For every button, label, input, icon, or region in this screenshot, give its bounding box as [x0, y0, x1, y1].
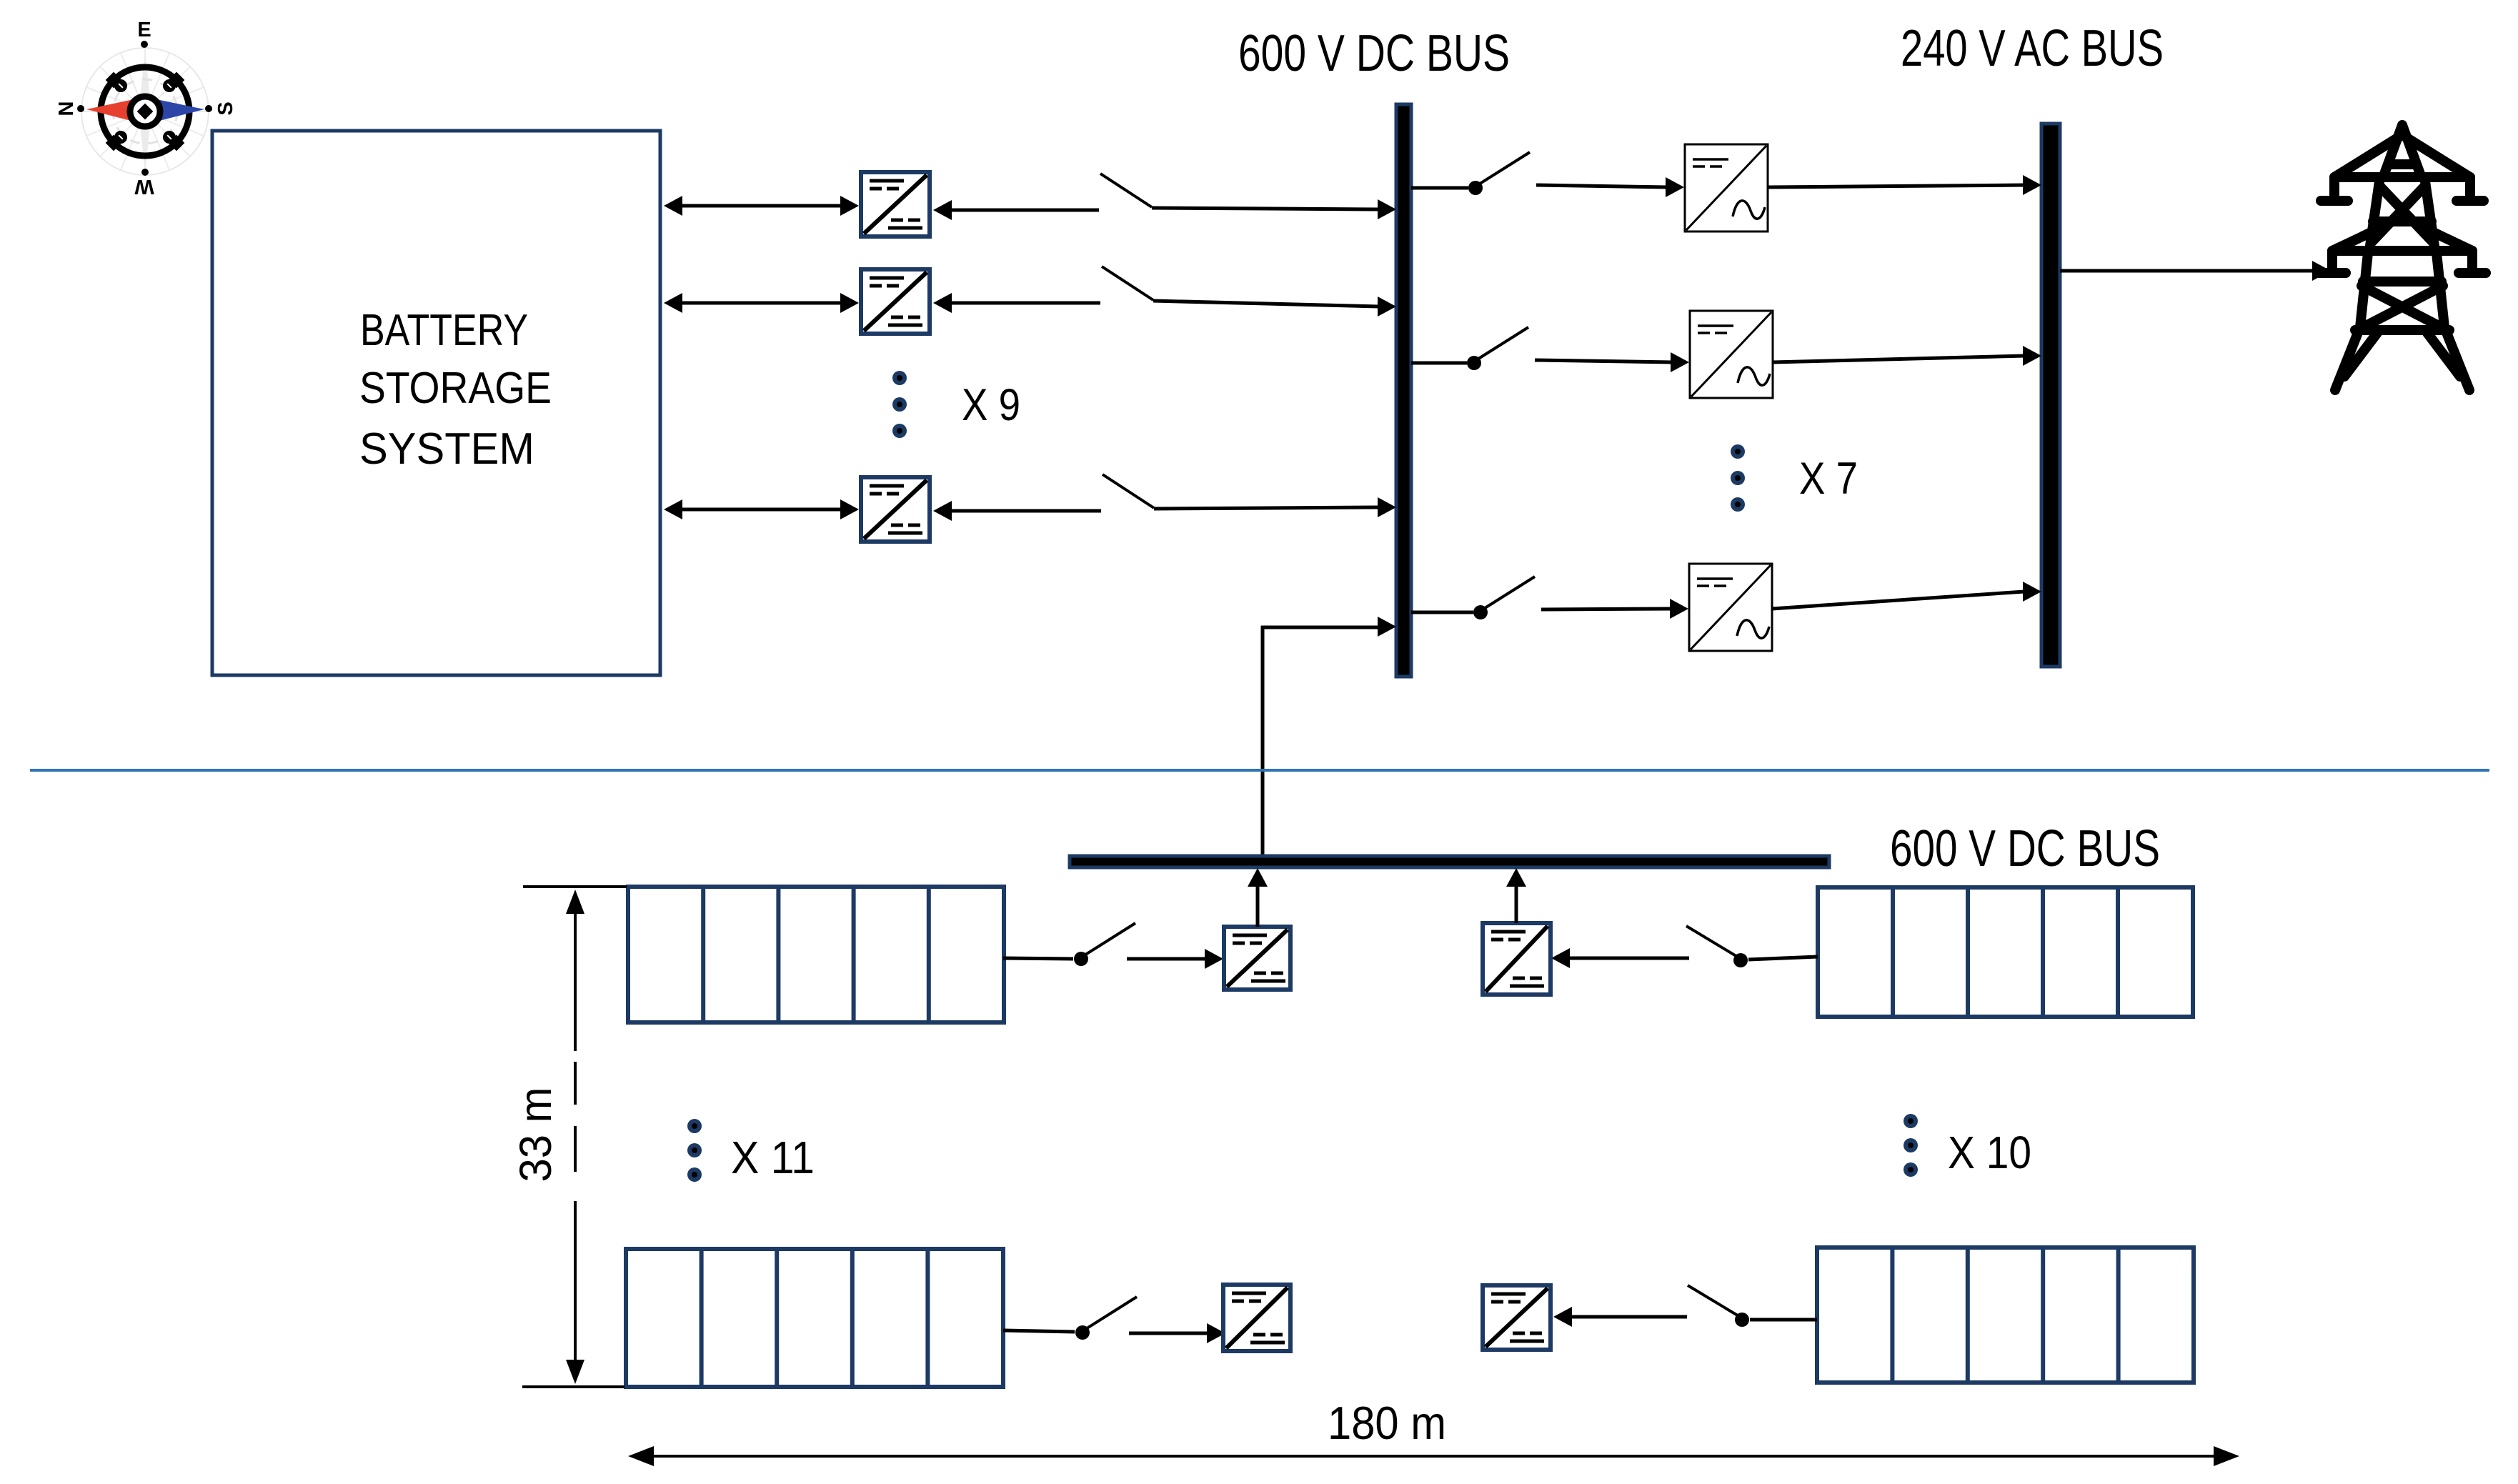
wire from PV DC bus to top DC bus (L-shaped)	[1261, 617, 1396, 856]
DC/DC converter B1	[861, 172, 930, 236]
DC/DC converter PV NE	[1483, 923, 1551, 995]
svg-text:X 11: X 11	[731, 1132, 815, 1183]
wire switch to DC bus row 3	[1154, 497, 1396, 517]
ellipsis dots (inverter strings)	[1731, 444, 1745, 512]
wire battery to DC/DC converter row 2 (bidirectional)	[664, 293, 859, 313]
disconnect switch battery row 1	[1100, 174, 1152, 207]
disconnect switch battery row 2	[1102, 267, 1153, 300]
utility grid transmission tower	[2319, 125, 2486, 390]
240 V AC bus label	[1901, 20, 2164, 77]
disconnect switch PV NE	[1686, 926, 1748, 967]
wire switch to converter B1	[933, 200, 1099, 220]
180 m dimension line	[628, 1446, 2239, 1466]
wire PV array SE to switch	[1750, 1318, 1817, 1322]
ellipsis dots (battery strings)	[892, 371, 907, 438]
wire switch to inverter U1	[1536, 177, 1684, 197]
600 V DC bus bar (PV field)	[1070, 856, 1829, 867]
X 11 label	[731, 1132, 815, 1183]
disconnect switch inverter row 2	[1467, 327, 1528, 370]
inverter U2	[1690, 311, 1773, 398]
svg-text:180 m: 180 m	[1328, 1397, 1446, 1449]
33 m label	[511, 1087, 561, 1182]
PV array south-west	[626, 1249, 1003, 1387]
disconnect switch battery row 3	[1103, 474, 1154, 508]
wire inverter U3 to AC bus	[1772, 582, 2041, 609]
ellipsis dots (PV west strings)	[687, 1119, 702, 1182]
wire switch to converter PV SE	[1553, 1307, 1687, 1327]
svg-text:S: S	[214, 101, 237, 115]
svg-text:33 m: 33 m	[511, 1087, 561, 1182]
DC/DC converter PV NW	[1224, 927, 1290, 990]
svg-text:X 9: X 9	[962, 380, 1020, 430]
wire DC bus to switch row 1	[1411, 186, 1468, 190]
svg-text:600 V DC BUS: 600 V DC BUS	[1238, 25, 1510, 82]
svg-text:BATTERY: BATTERY	[360, 306, 528, 355]
wire switch to inverter U3	[1541, 599, 1688, 619]
PV array north-west	[628, 887, 1004, 1022]
wire switch to converter PV NW	[1127, 949, 1223, 969]
wire switch to inverter U2	[1535, 352, 1689, 372]
600 V DC bus label (top)	[1238, 25, 1510, 82]
X 7 label	[1799, 454, 1858, 504]
PV array south-east	[1817, 1248, 2194, 1383]
wire converter PV NW to DC bus	[1248, 868, 1268, 927]
wire switch to converter B3	[933, 501, 1101, 521]
DC/DC converter PV SW	[1223, 1285, 1290, 1351]
battery storage system box	[212, 131, 660, 675]
svg-text:E: E	[137, 19, 151, 41]
X 10 label	[1948, 1127, 2031, 1178]
ellipsis dots (PV east strings)	[1904, 1114, 1918, 1177]
svg-text:STORAGE: STORAGE	[359, 364, 552, 413]
wire converter PV NE to DC bus	[1506, 868, 1526, 923]
svg-text:W: W	[134, 175, 154, 198]
svg-text:240 V AC BUS: 240 V AC BUS	[1901, 20, 2164, 77]
wire switch to converter PV NE	[1551, 948, 1689, 968]
wire battery to DC/DC converter row 1 (bidirectional)	[664, 196, 859, 216]
disconnect switch inverter row 1	[1468, 152, 1530, 195]
wire switch to DC bus row 2	[1153, 297, 1396, 317]
svg-text:SYSTEM: SYSTEM	[359, 424, 534, 474]
inverter U3	[1689, 564, 1772, 651]
svg-text:X 10: X 10	[1948, 1127, 2031, 1178]
wire PV array SW to switch	[1003, 1330, 1075, 1332]
battery storage system label	[359, 306, 552, 474]
wire DC bus to switch row 2	[1411, 362, 1467, 365]
section divider line	[30, 769, 2489, 772]
33 m dimension lines	[522, 887, 627, 1387]
DC/DC converter B3	[861, 477, 930, 542]
disconnect switch PV SE	[1688, 1285, 1749, 1327]
svg-text:X 7: X 7	[1799, 454, 1858, 504]
wire battery to DC/DC converter row 3 (bidirectional)	[664, 499, 859, 519]
wire PV array NW to switch	[1003, 958, 1073, 959]
240 V AC bus bar	[2041, 124, 2060, 667]
180 m label	[1328, 1397, 1446, 1449]
wire inverter U2 to AC bus	[1773, 346, 2041, 366]
X 9 label	[962, 380, 1020, 430]
DC/DC converter B2	[861, 269, 930, 334]
disconnect switch inverter row 3	[1473, 577, 1535, 619]
wire inverter U1 to AC bus	[1768, 175, 2041, 195]
svg-text:600 V DC BUS: 600 V DC BUS	[1890, 820, 2160, 877]
wire DC bus to switch row 3	[1411, 611, 1473, 614]
PV array north-east	[1818, 887, 2193, 1017]
inverter U1	[1685, 144, 1768, 231]
wire PV array NE to switch	[1748, 957, 1818, 960]
disconnect switch PV SW	[1075, 1297, 1137, 1340]
600 V DC bus label (PV field)	[1890, 820, 2160, 877]
disconnect switch PV NW	[1074, 923, 1135, 966]
wire switch to converter B2	[933, 293, 1100, 313]
wire AC bus to utility grid	[2060, 261, 2331, 281]
600 V DC bus bar (top)	[1396, 104, 1411, 677]
wire switch to DC bus row 1	[1152, 199, 1396, 219]
wire switch to converter PV SW	[1129, 1323, 1225, 1343]
DC/DC converter PV SE	[1483, 1285, 1551, 1350]
svg-text:N: N	[55, 101, 78, 116]
compass rose	[55, 19, 237, 198]
